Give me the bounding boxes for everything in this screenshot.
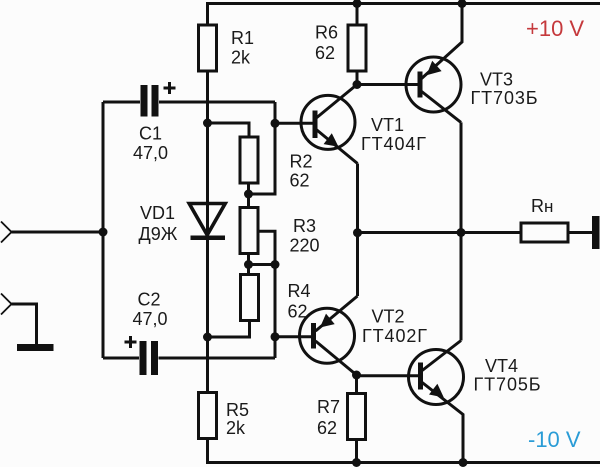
- node: R3 bottom left junction: [244, 260, 253, 269]
- label R2 62: [290, 152, 313, 191]
- resistor R1: [199, 4, 217, 124]
- wire: C1 coupling down to VT1 base / R2 bottom: [249, 102, 276, 194]
- svg-text:Rн: Rн: [531, 196, 553, 216]
- node: input junction dot: [99, 228, 108, 237]
- node: VT2 base junction: [271, 332, 280, 341]
- transistor VT4: [409, 341, 464, 463]
- node: VT1 base junction: [271, 119, 280, 128]
- svg-text:R3: R3: [293, 216, 316, 236]
- label VT1 ГТ404Г: [361, 115, 427, 154]
- resistor R6: [348, 4, 366, 85]
- capacitor C1: [103, 85, 275, 117]
- svg-text:62: 62: [317, 418, 337, 438]
- wire: output line to Rn: [358, 231, 522, 234]
- svg-text:62: 62: [315, 43, 335, 63]
- svg-text:ГТ703Б: ГТ703Б: [471, 88, 539, 108]
- svg-text:VT4: VT4: [485, 356, 518, 376]
- wire: VT3 collector / VT4 collector vertical: [460, 122, 463, 340]
- transistor VT3: [357, 4, 462, 123]
- svg-text:47,0: 47,0: [133, 309, 168, 329]
- label R3 220: [290, 216, 320, 256]
- wire: R3 bottom to tap line: [249, 263, 276, 266]
- label VT2 ГТ402Г: [362, 307, 428, 347]
- transistor VT2: [300, 296, 358, 375]
- svg-text:2k: 2k: [231, 48, 251, 68]
- wire: input 1 to C1/C2 junction: [12, 231, 104, 234]
- svg-text:Д9Ж: Д9Ж: [139, 224, 178, 244]
- node A: R1/VD1/R2 junction: [203, 119, 212, 128]
- svg-text:VT2: VT2: [372, 307, 405, 327]
- wire: VT1 base wire: [275, 122, 313, 125]
- diode VD1: [189, 123, 225, 393]
- svg-text:R6: R6: [315, 23, 338, 43]
- node: VT2 collector / R7 / VT4 base: [352, 371, 361, 380]
- wire: +10V top supply rail: [206, 2, 600, 5]
- svg-text:VT1: VT1: [371, 115, 404, 135]
- svg-text:VD1: VD1: [140, 203, 175, 223]
- output terminal bar: [592, 216, 600, 249]
- svg-text:C2: C2: [138, 290, 161, 310]
- resistor Rn (load): [521, 223, 592, 242]
- node: R3 bottom right junction: [271, 260, 280, 269]
- input terminal 1: [1, 222, 12, 243]
- resistor R4: [208, 265, 259, 338]
- node: VD1/R4 junction: [203, 333, 212, 342]
- polarity + of C2: [125, 336, 137, 348]
- svg-text:R7: R7: [317, 397, 340, 417]
- node: R2 bottom junction: [244, 190, 253, 199]
- svg-text:ГТ705Б: ГТ705Б: [474, 375, 542, 395]
- svg-text:R4: R4: [288, 281, 311, 301]
- wire: VT1 emitter / VT2 emitter vertical: [356, 164, 359, 297]
- node: output junction at Rn branch: [457, 228, 466, 237]
- wire: input 2 to ground: [12, 304, 37, 344]
- input terminal 2: [1, 294, 12, 315]
- label R7 62: [317, 397, 340, 438]
- label C1 47,0: [133, 124, 168, 164]
- svg-text:47,0: 47,0: [133, 143, 168, 163]
- polarity + of C1: [164, 82, 176, 94]
- svg-text:2k: 2k: [226, 418, 246, 438]
- node: top rail dot above R6: [353, 0, 362, 8]
- label VT4 ГТ705Б: [474, 356, 542, 395]
- label VD1 Д9Ж: [139, 203, 178, 244]
- wire: VT2 base wire: [275, 335, 311, 338]
- resistor R7: [348, 375, 366, 463]
- label R4 62: [288, 281, 311, 322]
- capacitor C2: [103, 341, 275, 375]
- resistor R2: [240, 137, 258, 194]
- svg-text:ГТ402Г: ГТ402Г: [362, 326, 428, 346]
- svg-text:C1: C1: [139, 124, 162, 144]
- node: bottom rail dot at VT4 emitter: [459, 458, 468, 467]
- resistor R5: [199, 393, 217, 463]
- label C2 47,0: [133, 290, 168, 330]
- resistor R3 (with side tap): [240, 194, 275, 358]
- label VT3 ГТ703Б: [471, 70, 539, 109]
- svg-text:+10 V: +10 V: [526, 16, 584, 41]
- svg-text:ГТ404Г: ГТ404Г: [361, 134, 427, 154]
- svg-text:-10 V: -10 V: [528, 427, 581, 452]
- svg-text:220: 220: [290, 236, 320, 256]
- node: top rail dot above VT3: [458, 0, 467, 8]
- label R1 2k: [231, 28, 254, 68]
- ground: [17, 344, 54, 351]
- wire: -10V bottom supply rail: [206, 461, 600, 464]
- svg-text:R2: R2: [290, 152, 313, 172]
- node: bottom rail dot at R7: [352, 458, 361, 467]
- svg-text:R5: R5: [226, 400, 249, 420]
- svg-text:R1: R1: [231, 28, 254, 48]
- label R6 62: [315, 23, 338, 64]
- label R5 2k: [226, 400, 249, 438]
- node: R6 bottom / VT1 collector / VT3 base: [353, 80, 362, 89]
- wire: left vertical joining C1 and C2: [102, 102, 105, 358]
- svg-text:62: 62: [290, 171, 310, 191]
- wire: node A to R2 top: [208, 123, 250, 137]
- transistor VT1: [301, 85, 358, 164]
- wire: VT4 base wire: [357, 374, 419, 377]
- svg-text:VT3: VT3: [480, 70, 513, 90]
- node: output junction at VT1/VT2: [353, 228, 362, 237]
